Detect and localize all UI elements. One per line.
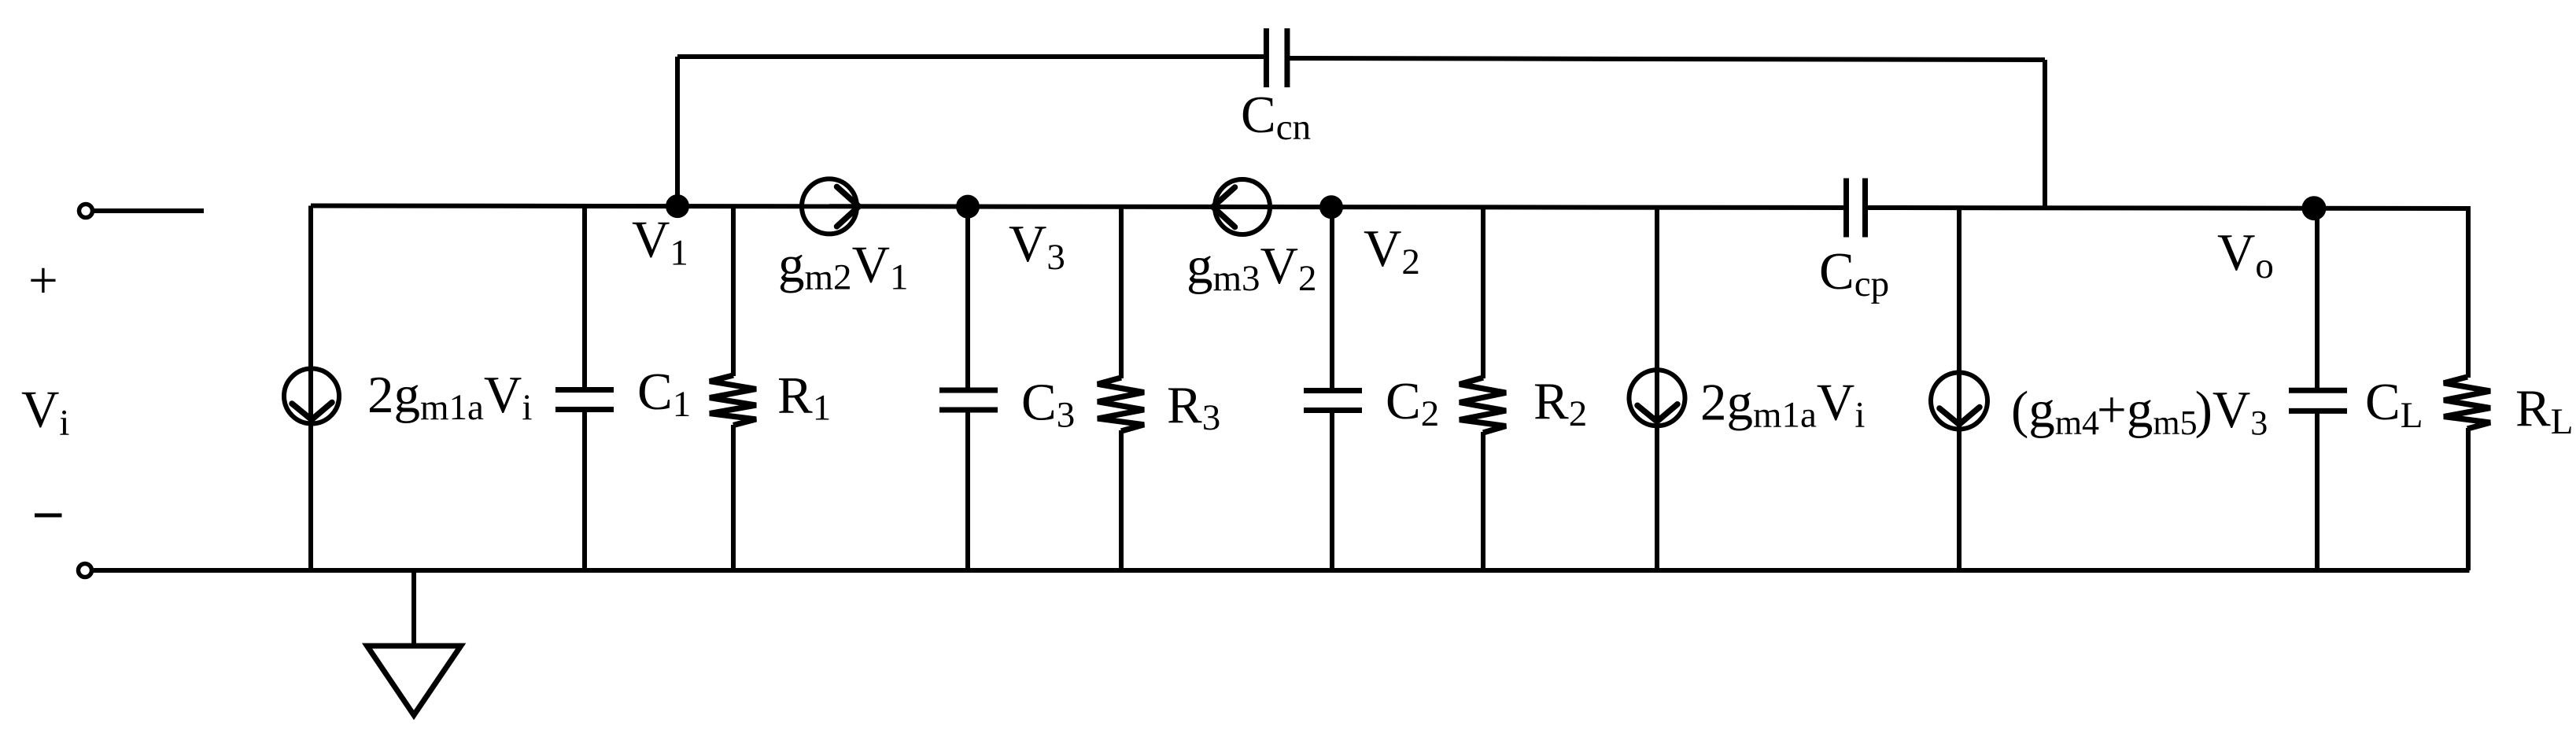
svg-text:gm3V2: gm3V2	[1187, 237, 1316, 299]
capacitor Ccp	[1843, 179, 1849, 238]
svg-text:V3: V3	[1009, 215, 1065, 278]
svg-text:Ccp: Ccp	[1819, 242, 1889, 304]
svg-text:C1: C1	[637, 363, 691, 425]
wire branch R3 top	[1119, 207, 1124, 378]
label minus	[35, 514, 62, 518]
terminal - (input bottom)	[79, 564, 92, 577]
svg-text:V2: V2	[1364, 219, 1420, 282]
capacitor CL	[2289, 388, 2347, 393]
wire branch CL top	[2315, 208, 2320, 388]
svg-text:2gm1aVi: 2gm1aVi	[367, 366, 532, 428]
resistor RL	[2444, 377, 2490, 429]
current source (gm4+gm5)V3	[1931, 373, 1987, 430]
svg-text:2gm1aVi: 2gm1aVi	[1700, 374, 1865, 436]
wire branch C1 bottom	[582, 412, 587, 570]
wire ground stub	[411, 570, 416, 644]
svg-text:+: +	[28, 252, 58, 310]
wire branch C3 bottom	[965, 412, 970, 570]
resistor R3	[1098, 378, 1144, 431]
capacitor C1	[555, 387, 614, 393]
wire Ccn top right	[1287, 58, 2045, 60]
svg-text:R2: R2	[1533, 372, 1587, 434]
wire branch RL top	[2466, 206, 2471, 378]
svg-text:RL: RL	[2515, 379, 2573, 442]
wire input stub	[93, 208, 204, 213]
terminal + (input top)	[79, 205, 93, 218]
node V2	[1319, 195, 1343, 219]
wire branch C3 top	[965, 207, 970, 388]
wire branch (gm4+gm5)V3	[1957, 208, 1962, 570]
current source 2gm1aVi (left)	[284, 369, 339, 424]
wire Ccn right vertical	[2043, 60, 2047, 208]
svg-text:R3: R3	[1167, 376, 1220, 438]
wire branch RL bottom	[2466, 428, 2471, 570]
wire branch 2gm1aVi-left	[308, 206, 313, 571]
wire branch C1 top	[582, 206, 587, 387]
node V3	[956, 195, 980, 219]
current source 2gm1aVi (right)	[1629, 370, 1685, 426]
svg-text:Ccn: Ccn	[1241, 86, 1311, 148]
resistor R2	[1460, 378, 1506, 433]
svg-text:gm2V1: gm2V1	[778, 236, 908, 298]
wire branch 2gm1aVi-right	[1655, 208, 1659, 570]
wire Ccn top left	[677, 54, 1267, 59]
capacitor C2	[1304, 388, 1362, 393]
wire branch R2 top	[1481, 207, 1485, 378]
wire bottom rail (ground net)	[92, 568, 2470, 573]
resistor R1	[710, 375, 756, 426]
wire branch R1 bottom	[731, 425, 736, 570]
svg-text:V1: V1	[632, 211, 688, 274]
svg-text:(gm4+gm5)V3: (gm4+gm5)V3	[2011, 381, 2268, 442]
node V1	[666, 194, 689, 218]
wire branch R2 bottom	[1481, 432, 1485, 570]
capacitor Ccn	[1264, 28, 1269, 87]
svg-text:R1: R1	[777, 367, 831, 429]
node Vo	[2302, 196, 2327, 220]
wire top rail Vo segment	[1866, 208, 2469, 208]
wire top rail V2 segment	[1242, 207, 1847, 208]
wire branch C2 bottom	[1330, 413, 1334, 571]
capacitor C3	[939, 388, 998, 393]
wire branch CL bottom	[2315, 413, 2320, 570]
svg-text:Vi: Vi	[21, 381, 69, 444]
wire branch C2 top	[1330, 207, 1334, 388]
svg-text:C2: C2	[1386, 372, 1439, 434]
wire top rail V3 segment	[829, 204, 1242, 209]
ground	[367, 646, 461, 715]
svg-text:C3: C3	[1021, 374, 1075, 436]
wire branch R3 bottom	[1119, 430, 1124, 570]
current source gm3V2	[1215, 179, 1270, 234]
wire Ccn left vertical	[675, 57, 680, 206]
wire branch R1 top	[731, 206, 736, 376]
svg-text:CL: CL	[2365, 373, 2423, 436]
wire top rail V1 segment	[311, 204, 829, 209]
svg-text:Vo: Vo	[2217, 223, 2274, 286]
current source gm2V1	[802, 179, 857, 234]
